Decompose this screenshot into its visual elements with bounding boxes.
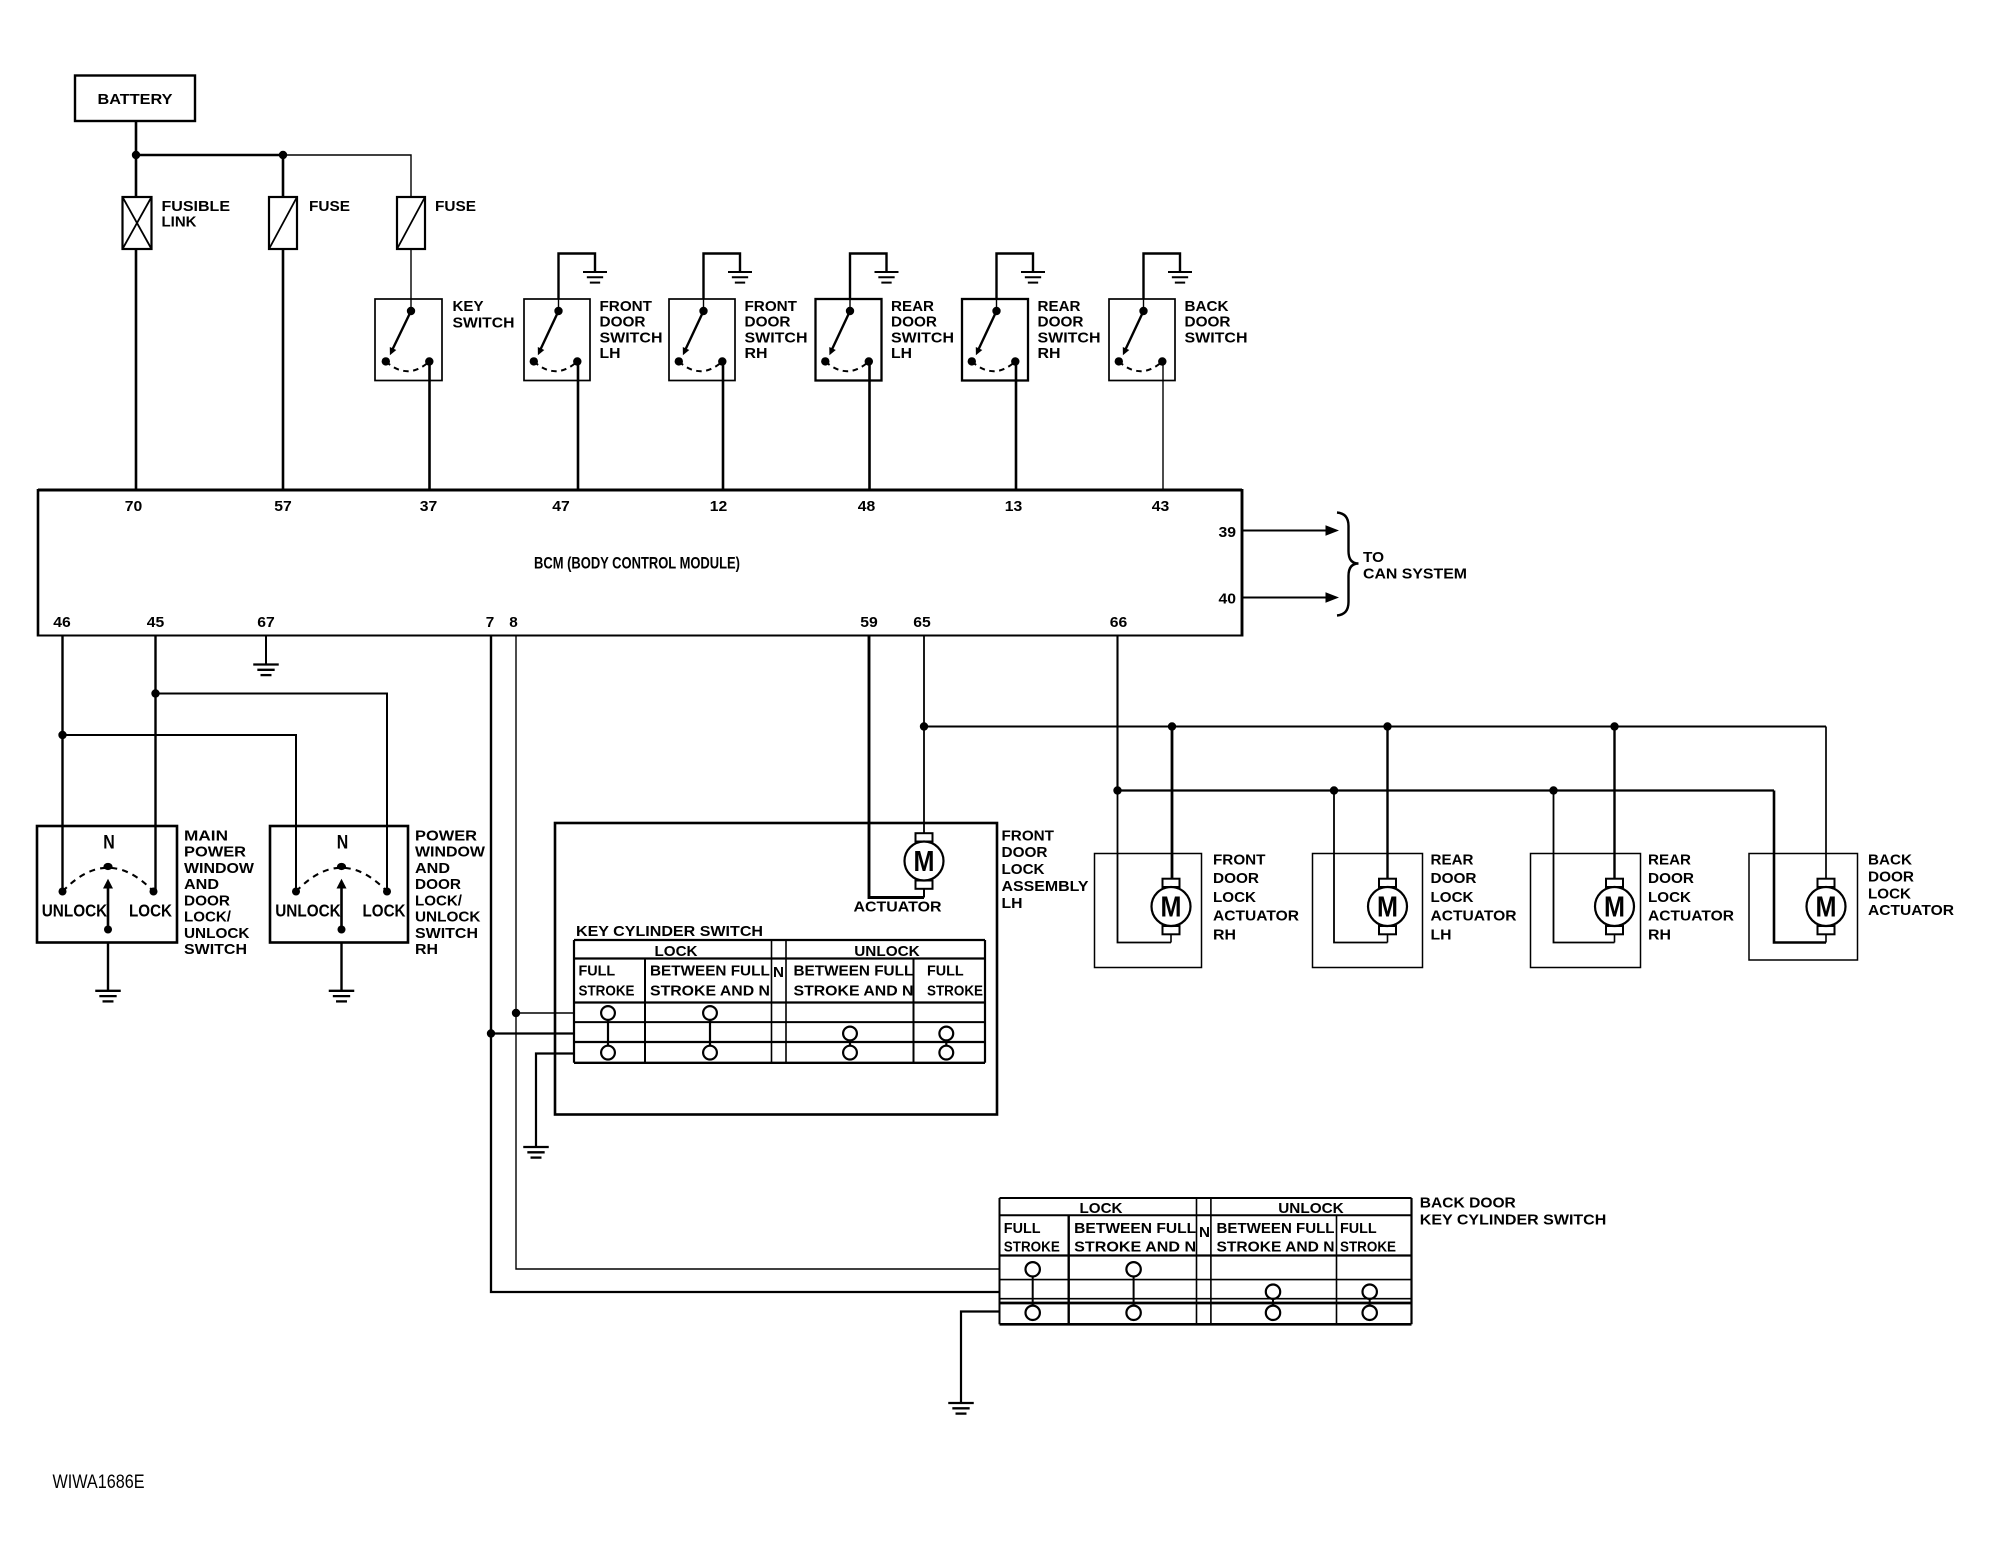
wire fusible link to BCM pin 70 <box>135 249 138 490</box>
svg-text:48: 48 <box>858 498 876 515</box>
svg-text:REAR: REAR <box>891 298 934 315</box>
svg-text:MAIN: MAIN <box>184 827 228 844</box>
svg-text:SWITCH: SWITCH <box>600 329 663 346</box>
svg-text:KEY: KEY <box>453 298 484 315</box>
label front door lock actuator RH <box>1213 852 1299 944</box>
svg-text:RH: RH <box>415 941 438 958</box>
wire back door lock actuator motor bottom <box>1825 935 1827 943</box>
svg-text:FULL: FULL <box>927 963 964 980</box>
svg-text:7: 7 <box>486 614 495 631</box>
fusible link <box>123 197 231 249</box>
svg-text:FULL: FULL <box>579 963 616 980</box>
svg-text:STROKE AND N: STROKE AND N <box>650 983 770 1000</box>
svg-text:RH: RH <box>1648 926 1671 943</box>
ground at BCM pin 67 <box>253 636 279 676</box>
switch box power window and door lock/unlock switch RH <box>270 826 408 943</box>
wire front door lock actuator RH motor bottom <box>1170 935 1172 943</box>
wire bus battery to fuse F1 <box>136 154 283 157</box>
wire BCM pin 66 down <box>1116 636 1118 791</box>
rear door lock actuator LH box <box>1313 854 1423 968</box>
svg-text:40: 40 <box>1219 591 1237 608</box>
svg-text:WINDOW: WINDOW <box>184 860 255 877</box>
svg-text:BACK: BACK <box>1185 298 1229 315</box>
svg-text:46: 46 <box>53 614 71 631</box>
motor M front door lock actuator LH <box>905 833 944 889</box>
motor M front door lock actuator RH <box>1152 879 1191 935</box>
svg-text:FRONT: FRONT <box>745 298 798 315</box>
svg-text:37: 37 <box>420 498 438 515</box>
svg-text:STROKE: STROKE <box>1004 1239 1060 1256</box>
svg-text:LOCK: LOCK <box>1213 889 1256 906</box>
svg-text:LOCK/: LOCK/ <box>415 892 463 909</box>
svg-text:ASSEMBLY: ASSEMBLY <box>1002 878 1089 895</box>
lower bus corner to back door motor bottom <box>1774 791 1826 943</box>
svg-text:LINK: LINK <box>162 214 197 231</box>
wire pin 7 to back door key cylinder row 2 <box>491 1034 1000 1293</box>
svg-text:UNLOCK: UNLOCK <box>275 901 341 921</box>
svg-text:TO: TO <box>1363 549 1384 566</box>
svg-text:STROKE: STROKE <box>1340 1239 1396 1256</box>
wire upper bus to front RH motor <box>1171 727 1174 879</box>
label front door lock assembly LH <box>1002 827 1089 912</box>
label back door lock actuator <box>1868 852 1954 920</box>
motor M back door lock actuator <box>1807 879 1846 935</box>
svg-text:59: 59 <box>860 614 878 631</box>
junction nodes lower bus <box>1330 786 1338 794</box>
svg-text:LOCK: LOCK <box>363 901 406 921</box>
wire lower bus into rear door lock actuator RH <box>1554 791 1615 943</box>
fuse F1 <box>269 197 350 249</box>
svg-text:UNLOCK: UNLOCK <box>184 925 250 942</box>
svg-text:STROKE AND N: STROKE AND N <box>794 983 914 1000</box>
wire from front door switch LH to BCM <box>577 362 580 491</box>
junction node pin 65 upper bus <box>920 722 928 730</box>
svg-text:LOCK: LOCK <box>129 901 172 921</box>
svg-text:UNLOCK: UNLOCK <box>854 943 920 960</box>
junction node on pin 46 wire <box>58 731 66 739</box>
wire BCM pin 65 down <box>923 636 925 727</box>
wire pin 8 to back door key cylinder row 1 <box>516 1013 1000 1269</box>
junction node pin 8 to key cylinder row <box>512 1009 520 1017</box>
svg-text:DOOR: DOOR <box>1648 870 1694 887</box>
svg-text:N: N <box>337 833 349 854</box>
wire upper bus to rear LH motor <box>1386 727 1388 879</box>
battery <box>75 76 195 122</box>
svg-text:FRONT: FRONT <box>1213 852 1266 869</box>
svg-text:KEY CYLINDER SWITCH: KEY CYLINDER SWITCH <box>576 923 763 940</box>
switch rear door switch LH <box>816 299 882 381</box>
wire pin 65 to LH motor top <box>923 727 925 834</box>
svg-text:KEY CYLINDER SWITCH: KEY CYLINDER SWITCH <box>1420 1211 1607 1228</box>
svg-text:ACTUATOR: ACTUATOR <box>1648 908 1734 925</box>
wire bus to fuse F2 <box>283 155 411 197</box>
svg-text:DOOR: DOOR <box>745 314 791 331</box>
wire fuse F1 to BCM pin 57 <box>282 249 285 490</box>
svg-text:39: 39 <box>1219 524 1237 541</box>
svg-text:DOOR: DOOR <box>1868 868 1914 885</box>
svg-text:AND: AND <box>184 876 219 893</box>
svg-text:DOOR: DOOR <box>1038 314 1084 331</box>
wire battery to fusible link <box>135 121 138 197</box>
wire pin 46 branch to RH switch UNLOCK <box>63 735 297 892</box>
back door table headers <box>1004 1200 1396 1256</box>
svg-text:FUSE: FUSE <box>435 198 476 215</box>
wire upper bus to rear RH motor <box>1613 727 1615 879</box>
svg-text:RH: RH <box>745 345 768 362</box>
svg-text:BACK DOOR: BACK DOOR <box>1420 1195 1516 1212</box>
svg-text:LOCK: LOCK <box>1431 889 1474 906</box>
junction node bus at fuse F1 <box>279 151 287 159</box>
junction node pin 7 to key cylinder row <box>487 1029 495 1037</box>
wire back door table row 3 to ground <box>961 1312 1000 1403</box>
fuse F2 <box>397 197 476 249</box>
back door key cylinder contacts <box>1026 1262 1377 1320</box>
svg-text:SWITCH: SWITCH <box>1185 329 1248 346</box>
front door lock assembly LH box <box>555 823 997 1115</box>
svg-text:ACTUATOR: ACTUATOR <box>1868 902 1954 919</box>
junction node pin 66 lower bus <box>1113 786 1121 794</box>
svg-text:DOOR: DOOR <box>1431 870 1477 887</box>
junction node battery bus left <box>132 151 140 159</box>
svg-text:67: 67 <box>257 614 275 631</box>
BCM body control module U1 <box>38 489 1242 637</box>
svg-text:REAR: REAR <box>1038 298 1081 315</box>
wire from rear door switch RH to BCM <box>1015 362 1018 491</box>
ground for back door switch <box>1144 254 1193 300</box>
svg-text:M: M <box>1377 892 1398 924</box>
ground for front door switch RH <box>704 254 753 300</box>
svg-text:STROKE AND N: STROKE AND N <box>1074 1239 1196 1256</box>
wire from front door switch RH to BCM <box>722 362 725 491</box>
rear door lock actuator RH box <box>1531 854 1641 968</box>
svg-text:DOOR: DOOR <box>1002 844 1048 861</box>
wire LH motor bottom terminal <box>923 889 925 897</box>
svg-text:LOCK: LOCK <box>1002 861 1045 878</box>
svg-text:LH: LH <box>600 345 621 362</box>
svg-text:N: N <box>1199 1224 1210 1241</box>
svg-text:SWITCH: SWITCH <box>1038 329 1101 346</box>
svg-text:DOOR: DOOR <box>600 314 646 331</box>
brace to CAN system <box>1337 513 1359 616</box>
key cylinder switch contacts <box>601 1006 953 1059</box>
label rear door lock actuator LH <box>1431 852 1517 944</box>
svg-text:LOCK: LOCK <box>1648 889 1691 906</box>
svg-text:RH: RH <box>1038 345 1061 362</box>
svg-text:STROKE: STROKE <box>579 983 635 1000</box>
svg-text:LOCK: LOCK <box>1868 885 1911 902</box>
wire BCM pin 8 down <box>515 636 517 1014</box>
svg-text:N: N <box>773 964 784 981</box>
svg-text:WIWA1686E: WIWA1686E <box>53 1472 145 1493</box>
lower bus wire to actuators <box>1118 789 1775 791</box>
wire rear door lock actuator RH motor bottom <box>1614 935 1616 943</box>
switch front door switch LH <box>524 299 590 381</box>
svg-text:LH: LH <box>1002 895 1023 912</box>
svg-text:ACTUATOR: ACTUATOR <box>854 899 942 916</box>
svg-text:BETWEEN FULL: BETWEEN FULL <box>1074 1220 1196 1237</box>
label power window switch RH <box>415 827 486 958</box>
key cylinder switch table <box>574 940 985 1063</box>
svg-text:FULL: FULL <box>1340 1220 1377 1237</box>
svg-text:SWITCH: SWITCH <box>745 329 808 346</box>
svg-text:DOOR: DOOR <box>891 314 937 331</box>
wire BCM pin 46 to main switch UNLOCK <box>61 636 63 892</box>
svg-text:RH: RH <box>1213 926 1236 943</box>
svg-text:BCM (BODY CONTROL MODULE): BCM (BODY CONTROL MODULE) <box>534 554 740 573</box>
switch box main power window and door lock/unlock switch <box>37 826 177 943</box>
svg-text:M: M <box>914 846 935 878</box>
ground for main power window and door lock/unlock switch <box>95 943 121 1002</box>
switch rear door switch RH <box>962 299 1028 381</box>
upper bus wire pin 65 to actuators <box>924 725 1826 727</box>
svg-text:DOOR: DOOR <box>415 876 461 893</box>
upper bus corner to back door motor <box>1825 727 1827 879</box>
svg-text:FUSE: FUSE <box>309 198 350 215</box>
svg-text:LOCK/: LOCK/ <box>184 909 232 926</box>
svg-text:SWITCH: SWITCH <box>184 941 247 958</box>
svg-text:45: 45 <box>147 614 165 631</box>
wire BCM pin 45 to main switch LOCK <box>154 636 156 892</box>
svg-text:AND: AND <box>415 860 450 877</box>
wire lower bus into front door lock actuator RH <box>1118 791 1172 943</box>
wire pin 7 stub to key cylinder switch row 2 <box>491 1032 574 1034</box>
svg-text:ACTUATOR: ACTUATOR <box>1213 908 1299 925</box>
back door lock actuator box <box>1749 854 1858 961</box>
key switch <box>375 298 515 381</box>
ground for rear door switch LH <box>850 254 899 300</box>
svg-text:BETWEEN FULL: BETWEEN FULL <box>650 963 770 980</box>
wire fuse F2 to key switch <box>410 249 412 299</box>
label rear door lock actuator RH <box>1648 852 1734 944</box>
svg-text:M: M <box>1816 892 1837 924</box>
wire lower bus into rear door lock actuator LH <box>1334 791 1388 943</box>
svg-text:FRONT: FRONT <box>1002 827 1055 844</box>
svg-text:BATTERY: BATTERY <box>98 91 173 108</box>
junction nodes upper bus <box>1168 722 1176 730</box>
label back door key cylinder switch <box>1420 1195 1607 1229</box>
svg-text:REAR: REAR <box>1648 852 1691 869</box>
svg-text:12: 12 <box>710 498 728 515</box>
svg-text:LOCK: LOCK <box>1080 1200 1123 1217</box>
svg-text:FRONT: FRONT <box>600 298 653 315</box>
ground of key cylinder switch <box>523 1146 549 1148</box>
label TO CAN SYSTEM <box>1363 549 1467 583</box>
back door table bold row line <box>1000 1302 1412 1305</box>
ground for rear door switch RH <box>997 254 1046 300</box>
svg-text:ACTUATOR: ACTUATOR <box>1431 908 1517 925</box>
svg-text:SWITCH: SWITCH <box>453 315 515 332</box>
svg-text:REAR: REAR <box>1431 852 1474 869</box>
front door lock actuator RH box <box>1095 854 1202 968</box>
motor M rear door lock actuator RH <box>1595 879 1634 935</box>
svg-text:STROKE AND N: STROKE AND N <box>1217 1239 1335 1256</box>
ground for front door switch LH <box>559 254 608 300</box>
wire rear door lock actuator LH motor bottom <box>1387 935 1389 943</box>
svg-text:BACK: BACK <box>1868 852 1912 869</box>
BCM bottom pin numbers <box>53 614 1127 631</box>
switch back door switch <box>1109 299 1175 381</box>
svg-text:BETWEEN FULL: BETWEEN FULL <box>1217 1220 1335 1237</box>
svg-text:FULL: FULL <box>1004 1220 1041 1237</box>
svg-text:UNLOCK: UNLOCK <box>415 909 481 926</box>
svg-text:43: 43 <box>1152 498 1170 515</box>
svg-text:BETWEEN FULL: BETWEEN FULL <box>794 963 914 980</box>
label main power window switch <box>184 827 255 958</box>
svg-text:70: 70 <box>125 498 143 515</box>
wire key cylinder switch row 3 to ground <box>536 1054 574 1147</box>
svg-text:UNLOCK: UNLOCK <box>42 901 108 921</box>
svg-text:WINDOW: WINDOW <box>415 844 486 861</box>
key cylinder table headers <box>579 943 984 1000</box>
svg-text:UNLOCK: UNLOCK <box>1278 1200 1344 1217</box>
back door key cylinder switch table <box>1000 1198 1412 1324</box>
junction node on pin 45 wire <box>151 689 159 697</box>
svg-text:FUSIBLE: FUSIBLE <box>162 198 231 215</box>
wire BCM pin 7 down <box>490 636 492 1034</box>
BCM top pin numbers <box>125 498 1170 515</box>
switch front door switch RH <box>669 299 735 381</box>
svg-text:DOOR: DOOR <box>1213 870 1259 887</box>
motor M rear door lock actuator LH <box>1368 879 1407 935</box>
svg-text:SWITCH: SWITCH <box>891 329 954 346</box>
svg-text:LH: LH <box>1431 926 1452 943</box>
svg-text:POWER: POWER <box>415 827 477 844</box>
svg-text:STROKE: STROKE <box>927 983 983 1000</box>
arrow pin 40 to CAN <box>1243 592 1340 603</box>
svg-text:CAN SYSTEM: CAN SYSTEM <box>1363 566 1467 583</box>
wire from rear door switch LH to BCM <box>868 362 871 491</box>
ground of back door key cylinder switch <box>948 1402 974 1404</box>
arrow pin 39 to CAN <box>1243 525 1340 536</box>
svg-text:POWER: POWER <box>184 844 246 861</box>
svg-text:47: 47 <box>552 498 570 515</box>
svg-text:57: 57 <box>274 498 292 515</box>
svg-text:LH: LH <box>891 345 912 362</box>
svg-text:LOCK: LOCK <box>655 943 698 960</box>
svg-text:DOOR: DOOR <box>1185 314 1231 331</box>
wire BCM pin 59 to LH actuator motor <box>869 636 924 898</box>
svg-text:M: M <box>1604 892 1625 924</box>
wire from back door switch to BCM <box>1162 362 1164 491</box>
svg-text:M: M <box>1161 892 1182 924</box>
svg-text:65: 65 <box>913 614 931 631</box>
wire pin 8 stub to key cylinder switch row 1 <box>516 1012 574 1014</box>
svg-text:66: 66 <box>1110 614 1128 631</box>
svg-text:DOOR: DOOR <box>184 892 230 909</box>
svg-text:N: N <box>103 833 115 854</box>
svg-text:8: 8 <box>509 614 518 631</box>
ground for power window and door lock/unlock switch RH <box>329 943 355 1002</box>
wire pin 45 branch to RH switch LOCK <box>156 694 388 892</box>
svg-text:SWITCH: SWITCH <box>415 925 478 942</box>
wire key switch to BCM pin 37 <box>428 362 431 491</box>
wire bus junction to fuse F1 <box>282 155 285 197</box>
svg-text:13: 13 <box>1005 498 1023 515</box>
